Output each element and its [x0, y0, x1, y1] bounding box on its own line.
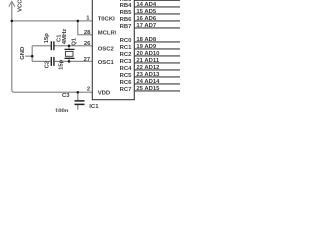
svg-text:AD7: AD7 — [144, 23, 157, 29]
svg-text:AD15: AD15 — [144, 86, 160, 92]
svg-text:17: 17 — [136, 23, 143, 29]
svg-text:AD13: AD13 — [144, 72, 160, 78]
svg-text:RC5: RC5 — [120, 73, 133, 79]
svg-text:100n: 100n — [55, 108, 69, 112]
svg-text:20: 20 — [136, 51, 143, 57]
svg-text:RC7: RC7 — [120, 87, 133, 93]
svg-text:GND: GND — [20, 47, 26, 60]
svg-text:15p: 15p — [44, 33, 50, 44]
svg-text:RC6: RC6 — [120, 80, 133, 86]
svg-text:OSC2: OSC2 — [98, 47, 115, 53]
svg-text:RC3: RC3 — [120, 59, 133, 65]
svg-text:14: 14 — [136, 2, 143, 8]
svg-text:27: 27 — [84, 57, 91, 63]
svg-text:18: 18 — [136, 37, 143, 43]
svg-text:25: 25 — [136, 86, 143, 92]
svg-text:C2: C2 — [45, 60, 51, 68]
svg-text:RC1: RC1 — [120, 45, 133, 51]
svg-text:RC2: RC2 — [120, 52, 133, 58]
svg-text:T0CKI: T0CKI — [98, 17, 115, 23]
svg-text:28: 28 — [84, 30, 91, 36]
svg-text:RB7: RB7 — [120, 24, 133, 30]
svg-text:MCLR\: MCLR\ — [98, 31, 117, 37]
svg-text:19: 19 — [136, 44, 143, 50]
svg-text:AD6: AD6 — [144, 16, 157, 22]
svg-text:AD10: AD10 — [144, 51, 160, 57]
svg-text:OSC1: OSC1 — [98, 60, 115, 66]
svg-text:16: 16 — [136, 16, 143, 22]
svg-text:RC0: RC0 — [120, 38, 133, 44]
svg-text:RC4: RC4 — [120, 66, 133, 72]
svg-text:24: 24 — [136, 79, 143, 85]
svg-text:15: 15 — [136, 9, 143, 15]
svg-text:Q1: Q1 — [72, 37, 78, 46]
svg-text:AD11: AD11 — [144, 58, 159, 64]
svg-text:26: 26 — [84, 41, 91, 47]
svg-text:RB6: RB6 — [120, 17, 133, 23]
svg-text:IC1: IC1 — [89, 104, 99, 110]
svg-text:AD12: AD12 — [144, 65, 160, 71]
svg-text:VDD: VDD — [98, 91, 110, 97]
svg-text:RB5: RB5 — [120, 10, 133, 16]
svg-text:23: 23 — [136, 72, 143, 78]
svg-text:RB4: RB4 — [120, 3, 133, 9]
svg-text:AD9: AD9 — [144, 44, 157, 50]
svg-text:VCC: VCC — [17, 0, 23, 12]
svg-text:22: 22 — [136, 65, 143, 71]
svg-text:21: 21 — [136, 58, 143, 64]
svg-text:AD4: AD4 — [144, 2, 157, 8]
svg-text:AD8: AD8 — [144, 37, 157, 43]
svg-text:C3: C3 — [62, 93, 70, 99]
svg-text:4MHz: 4MHz — [62, 29, 68, 44]
svg-text:15p: 15p — [58, 59, 64, 70]
svg-text:AD5: AD5 — [144, 9, 157, 15]
svg-text:AD14: AD14 — [144, 79, 160, 85]
